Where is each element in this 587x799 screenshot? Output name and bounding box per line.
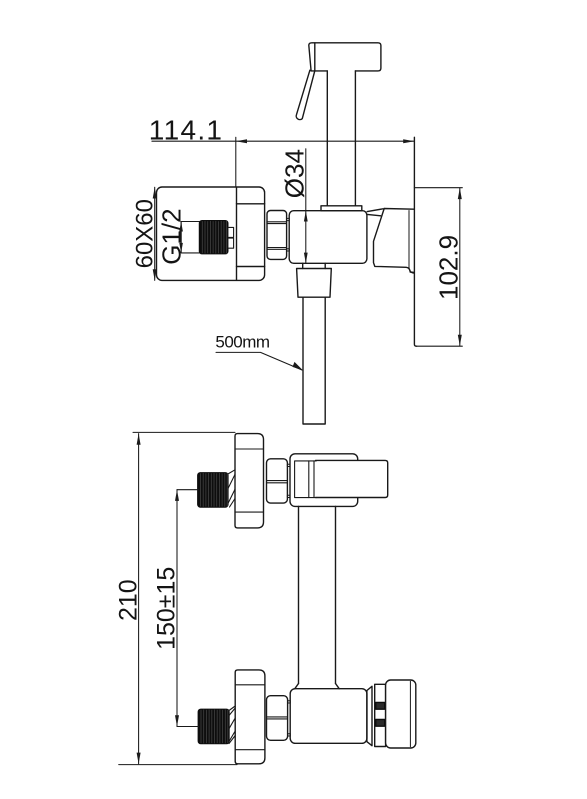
top hex nut bbox=[267, 459, 288, 503]
dim diam34 leader bbox=[305, 149, 307, 263]
arrow G1/2 bottom bbox=[179, 243, 183, 253]
hex nut (top view) bbox=[267, 211, 287, 260]
dim 102.9 line bbox=[459, 188, 461, 346]
bottom threaded nipple (black) bbox=[198, 709, 229, 743]
nut-holder stub upper bbox=[287, 218, 290, 220]
plate boss bottom line bbox=[237, 266, 265, 268]
mount tab upper bbox=[376, 702, 385, 709]
thread hatch lines (white) top view bbox=[202, 221, 226, 254]
thread lower tab bbox=[228, 238, 234, 248]
handle mount piece bbox=[375, 684, 386, 746]
dim 114.1 line bbox=[152, 137, 415, 187]
plate boss top line bbox=[237, 203, 265, 205]
dim G1/2 arrow line bbox=[180, 222, 182, 253]
lever neck inner edge bbox=[409, 211, 414, 274]
inlet inner sleeve bbox=[181, 222, 199, 253]
svg-text:150±15: 150±15 bbox=[152, 567, 180, 650]
dim 210 line bbox=[119, 432, 237, 764]
arrow 500mm leader bbox=[293, 362, 304, 371]
trigger lever bbox=[296, 70, 314, 119]
svg-text:Ø34: Ø34 bbox=[280, 149, 310, 198]
arrow diam34 bottom bbox=[304, 253, 308, 264]
outlet stubs bbox=[302, 263, 304, 268]
holder seat inner rect bbox=[295, 461, 317, 498]
arrow 60X60 top bbox=[153, 187, 157, 198]
arrow 114.1 right bbox=[403, 139, 414, 143]
top body block bbox=[290, 454, 358, 507]
outlet cone bbox=[297, 269, 332, 298]
nut-holder stub lower bbox=[287, 249, 290, 251]
arrow 114.1 left bbox=[236, 139, 247, 143]
handle mount trapezoid bbox=[367, 686, 372, 745]
arrowheads bbox=[137, 139, 462, 764]
arrow 150+-15 top bbox=[175, 490, 179, 501]
top wall plate (front) bbox=[235, 434, 264, 528]
plate division line bbox=[236, 187, 238, 280]
bottom thread chamfer wedge bbox=[229, 706, 235, 744]
svg-text:114.1: 114.1 bbox=[149, 114, 224, 145]
arrow 102.9 bottom bbox=[458, 335, 462, 346]
svg-text:60X60: 60X60 bbox=[132, 199, 159, 268]
handle end inner line bbox=[409, 681, 411, 747]
top nut stubs bbox=[287, 464, 290, 466]
handle (front) bbox=[386, 680, 416, 748]
top threaded nipple (black) bbox=[198, 473, 228, 507]
arrow 210 bottom bbox=[137, 753, 141, 764]
lever neck bbox=[374, 209, 415, 273]
sprayer head (top view) bbox=[309, 43, 381, 71]
svg-text:G1/2: G1/2 bbox=[156, 208, 186, 264]
sprayer head inner edge line bbox=[314, 43, 316, 71]
hose bbox=[303, 297, 325, 424]
top thread chamfer wedge bbox=[228, 470, 235, 507]
thread upper tab bbox=[228, 227, 234, 237]
thread hatch lines (white) bottom view bottom bbox=[201, 710, 228, 744]
arrow 102.9 top bbox=[458, 188, 462, 199]
arrow G1/2 top bbox=[179, 222, 183, 232]
sprayer handle tube bbox=[326, 71, 328, 206]
arrow 60X60 bottom bbox=[153, 269, 157, 280]
mount tab lower bbox=[376, 719, 385, 726]
lever handle slab bbox=[414, 137, 416, 346]
arrow 150+-15 bottom bbox=[175, 715, 179, 726]
bottom wall plate (front) bbox=[235, 670, 265, 764]
svg-text:210: 210 bbox=[115, 579, 143, 621]
arrow diam34 top bbox=[304, 211, 308, 222]
sprayer holder bar (front) bbox=[316, 460, 388, 497]
handle bottom edge bbox=[417, 345, 463, 347]
dim 60X60 line bbox=[154, 187, 156, 280]
dim 150+-15 line bbox=[177, 490, 199, 727]
handle collar bbox=[321, 206, 362, 211]
svg-text:102.9: 102.9 bbox=[434, 235, 464, 300]
bottom hex nut bbox=[267, 696, 288, 741]
wall plate 60X60 (top view) bbox=[157, 187, 265, 280]
lever neck tab bbox=[367, 209, 383, 216]
bottom body block bbox=[290, 689, 367, 744]
body bar flares bbox=[295, 684, 339, 689]
body bar bbox=[298, 506, 300, 683]
handle top edge bbox=[414, 187, 462, 189]
arrow 210 top bbox=[137, 434, 141, 445]
sprayer holder block bbox=[289, 211, 367, 264]
G1/2 threaded nipple (black) bbox=[200, 221, 228, 254]
thread hatch lines (white) bottom view top bbox=[201, 473, 228, 507]
svg-text:500mm: 500mm bbox=[215, 332, 270, 351]
leader 500mm bbox=[216, 352, 302, 370]
bottom nut stubs bbox=[288, 701, 291, 703]
